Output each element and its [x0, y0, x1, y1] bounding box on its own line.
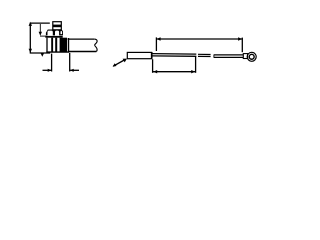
- pipe break squiggle: [94, 39, 97, 51]
- ring terminal outer: [247, 52, 256, 61]
- cap: [53, 22, 62, 30]
- hex-top extension line: [40, 35, 46, 37]
- cable after break: [214, 54, 244, 56]
- lower hanging down arrowhead: [41, 54, 44, 57]
- left figure: vertical dimension line: [29, 24, 31, 53]
- second (short) dimension stem: [39, 24, 41, 32]
- sheath rod top/bottom lines: [152, 53, 196, 56]
- bottom dim extension lines (left figure): [51, 54, 53, 72]
- pipe top line: [68, 38, 95, 40]
- short dim down arrowhead: [39, 32, 42, 36]
- sleeve: [127, 52, 151, 58]
- bottom dim arrow tails (left figure): [43, 69, 52, 71]
- bottom dimension line (right figure): [153, 71, 195, 73]
- bottom extension line: [30, 52, 51, 54]
- bottom dim arrowheads (right figure): [153, 70, 157, 73]
- hex head (black with white windows): [46, 30, 63, 36]
- bottom dim right extension: [195, 56, 197, 73]
- body outline: [46, 38, 48, 53]
- sleeve right edge (thick): [151, 52, 153, 59]
- top dim arrowheads (right figure): [157, 37, 161, 40]
- top dim left extension: [155, 37, 157, 51]
- thread line 1: [51, 38, 53, 53]
- ring terminal inner: [249, 54, 254, 59]
- bottom dim arrowheads (left figure): [48, 69, 52, 72]
- top dim right extension: [241, 38, 243, 53]
- vertical dim arrowheads: [29, 22, 32, 26]
- thick band: [60, 38, 67, 53]
- leader arrowheads: [123, 59, 127, 63]
- right figure: leader line: [113, 60, 125, 67]
- bottom dim left extension: [152, 59, 154, 73]
- top dimension line (right figure): [156, 38, 242, 40]
- flange (black): [45, 36, 62, 38]
- pipe bottom line: [69, 51, 96, 53]
- top extension line: [30, 22, 50, 24]
- ferrule: [243, 54, 247, 59]
- thread line 2: [55, 38, 57, 53]
